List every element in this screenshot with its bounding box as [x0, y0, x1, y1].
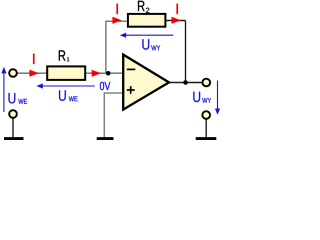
wire feedback top-left to R2 — [105, 20, 128, 22]
wire lower output terminal to ground — [205, 119, 207, 138]
output terminal upper — [202, 79, 210, 87]
current arrow I on input wire — [29, 70, 38, 77]
wire input terminal to R1 — [16, 72, 47, 74]
label I at R2 left — [116, 4, 118, 15]
voltage arrow U_WE left pointing up — [3, 70, 5, 112]
label I input current — [33, 54, 35, 65]
label U_WY under R2 — [142, 39, 160, 50]
label U_WE left — [9, 93, 28, 104]
label U_WY right — [193, 92, 211, 103]
resistor R1 — [47, 66, 85, 80]
voltage arrow U_WY right pointing down — [217, 81, 219, 113]
label I at R2 right — [176, 4, 178, 15]
wire feedback vertical right down to output node — [185, 21, 187, 83]
ground middle — [97, 137, 114, 140]
wire feedback vertical left — [105, 21, 107, 73]
label U_WE under R1 — [59, 90, 78, 101]
resistor R2 — [128, 14, 165, 27]
current arrow out of R2 — [172, 17, 181, 24]
current arrow into R2 — [112, 17, 121, 24]
wire R2 to right corner — [166, 20, 186, 22]
voltage arrow U_WE under R1 pointing left — [39, 85, 95, 87]
ground left — [4, 137, 24, 140]
op-amp plus pin mark — [127, 89, 135, 91]
ground right — [196, 137, 217, 140]
label R1 — [59, 50, 69, 61]
node A junction dot (inverting input) — [106, 71, 111, 76]
node B junction dot (output) — [183, 80, 188, 85]
label 0V node — [100, 82, 110, 90]
input terminal upper — [9, 69, 17, 77]
current arrow into node A — [92, 70, 101, 77]
output terminal lower — [202, 111, 210, 119]
label R2 — [138, 1, 149, 13]
voltage arrow U_WY under R2 pointing left — [122, 34, 173, 36]
wire lower input terminal to ground — [12, 118, 14, 138]
input terminal lower — [9, 110, 17, 118]
op-amp U1 — [123, 55, 169, 110]
wire op-amp output to terminal — [170, 82, 203, 84]
wire non-inverting input to ground — [104, 93, 123, 137]
wire R1 to inverting input node — [86, 72, 123, 74]
op-amp minus pin mark — [127, 68, 136, 70]
